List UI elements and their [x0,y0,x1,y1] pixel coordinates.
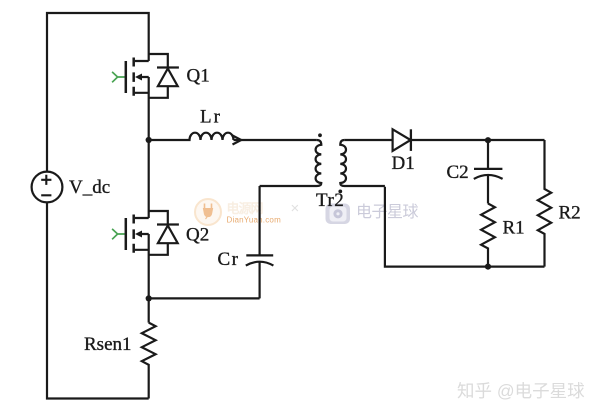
svg-text:V_dc: V_dc [69,177,110,198]
wire node A vertical (Q1 source to Q2 drain) [148,77,150,218]
svg-text:DianYuan.com: DianYuan.com [227,216,282,225]
arrow on Lr wire [233,136,242,145]
svg-text:电源网: 电源网 [227,201,264,216]
wire secondary top to D1 [344,139,392,141]
svg-text:Rsen1: Rsen1 [84,334,132,355]
top wire [47,13,149,172]
node D junction dot [485,264,491,270]
transformer Tr2 secondary winding [340,140,385,186]
svg-text:×: × [291,200,300,217]
svg-text:R1: R1 [503,218,525,239]
transformer Tr2 secondary phase dot [338,190,342,194]
node B junction dot [146,295,152,301]
wire D1 to output node [411,139,545,141]
svg-text:D1: D1 [392,153,415,174]
node A junction dot [146,137,152,143]
svg-text:Q2: Q2 [186,225,209,246]
svg-text:R2: R2 [559,203,581,224]
capacitor Cr [246,186,274,298]
inductor Lr [149,133,234,140]
voltage source V_dc [32,172,63,203]
svg-text:Tr2: Tr2 [316,190,344,211]
transformer Tr2 primary phase dot [318,133,322,137]
transistor Q2 [112,211,179,255]
bottom output wire [385,187,545,267]
bottom wire [47,202,149,398]
svg-text:Cr: Cr [218,249,240,270]
svg-text:电子星球: 电子星球 [356,203,419,221]
transistor Q1 [112,54,179,98]
capacitor C2 [474,140,503,204]
watermark dianzi xingqiu logo [326,204,351,225]
wire Lr to transformer [234,139,317,141]
resistor R2 (with right rail) [538,140,551,267]
wire Q2 source down to node B [148,234,150,323]
node C junction dot [485,137,491,143]
resistor R1 [481,204,495,267]
watermark dianyuan logo [195,199,221,225]
svg-text:Lr: Lr [200,107,222,128]
wire Cr to node B [149,297,260,299]
svg-text:Q1: Q1 [187,66,210,87]
diode D1 [393,129,411,151]
resistor Rsen1 [142,323,156,399]
svg-text:C2: C2 [447,162,469,183]
svg-text:知乎 @电子星球: 知乎 @电子星球 [457,381,585,401]
transformer Tr2 primary winding [260,140,322,186]
